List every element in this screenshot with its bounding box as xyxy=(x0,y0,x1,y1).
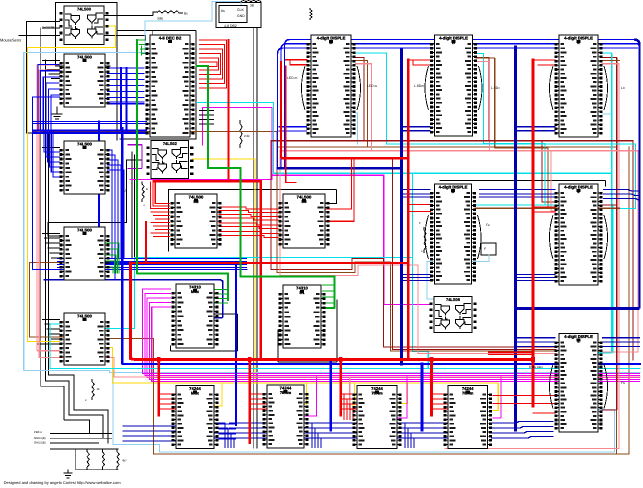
ground U2 bar1 xyxy=(52,113,62,115)
wire to U3 pin xyxy=(52,171,60,173)
wire magenta 107 xyxy=(202,108,272,180)
blue D5 right xyxy=(603,190,640,200)
svg-text:74LS00: 74LS00 xyxy=(77,228,92,233)
wire cyan D4-D6 xyxy=(475,205,613,353)
net rail PB0 xyxy=(51,432,112,434)
green vert left 2 xyxy=(141,46,143,55)
svg-text:Designed and drawing by angelo: Designed and drawing by angelo Cortesi h… xyxy=(4,480,122,485)
red into D6 b xyxy=(493,403,556,405)
wire to U4 pin xyxy=(44,237,59,239)
resistor R1 xyxy=(87,449,89,470)
green vert left 1 xyxy=(137,40,228,300)
ground bar2 xyxy=(66,475,71,477)
wire clk A xyxy=(252,28,254,449)
frame bottom U5 xyxy=(120,138,196,140)
red vert 249 low xyxy=(248,360,250,443)
red into D2 b xyxy=(413,60,431,65)
wire maroon 349 xyxy=(392,158,555,349)
blue fan U2 left xyxy=(38,65,59,131)
buffer B1 xyxy=(171,386,218,449)
frame bottom U1 xyxy=(56,65,111,67)
ground bar1 xyxy=(64,472,72,474)
red into D6 a xyxy=(493,395,556,397)
wire cyan rail right xyxy=(387,144,636,209)
wire red U8 up b xyxy=(325,159,354,221)
wire brown rail xyxy=(29,262,103,337)
wire red U8 up a xyxy=(325,159,352,209)
wire to U10 pin xyxy=(51,338,59,340)
display DS6 xyxy=(550,334,608,433)
wire sky stub D3 xyxy=(602,113,612,115)
blue bus band 2 xyxy=(57,259,247,268)
red into D3 a xyxy=(533,59,556,61)
wire to U3 pin xyxy=(50,166,60,168)
oscillator X1 xyxy=(219,6,247,29)
wire yellow B3 branch xyxy=(352,383,354,405)
red into D4 b xyxy=(408,211,430,213)
blue vert 4 xyxy=(235,263,237,425)
wire cyan bus bottom xyxy=(50,324,640,369)
magenta bus bundle xyxy=(143,289,641,381)
blue bus band 2 thick xyxy=(100,262,236,264)
red into D1 b xyxy=(290,64,307,66)
blue rail left top xyxy=(33,96,60,98)
IC U7 xyxy=(170,194,221,248)
IC U4 xyxy=(59,227,109,280)
resistor R2 xyxy=(102,449,104,470)
frame display row 2 xyxy=(440,181,606,186)
svg-text:GND2(B): GND2(B) xyxy=(34,441,46,445)
wire brown long bottom xyxy=(104,147,630,454)
wire cyan D3 rail xyxy=(598,53,612,353)
wire violet bracket U6 xyxy=(128,145,142,169)
svg-text:Fe: Fe xyxy=(486,223,490,227)
green fan C2 right xyxy=(322,285,335,303)
red fan B2lh xyxy=(250,394,267,409)
red B4-D6 xyxy=(488,352,533,354)
wire yellow 2 xyxy=(193,159,255,383)
wire to U3 pin xyxy=(44,151,59,153)
blue U4 to U9 xyxy=(105,243,115,280)
blue into D3 low xyxy=(516,127,556,131)
frame around U7 U8 row xyxy=(169,190,337,252)
red vert 260 xyxy=(260,181,262,360)
wire maroon D2-D5 xyxy=(476,58,556,203)
svg-text:8 Mu plex: 8 Mu plex xyxy=(529,365,543,369)
svg-text:74LS00: 74LS00 xyxy=(77,314,92,319)
blue bus band 1 thick xyxy=(33,131,147,134)
wire magenta B2 branch xyxy=(304,375,317,416)
red fan B1h xyxy=(159,394,176,409)
display DS2 xyxy=(425,35,482,136)
oscillator X3 xyxy=(481,243,496,255)
wire to U10 pin xyxy=(49,333,59,335)
green fan U9 right xyxy=(214,290,228,304)
red fan B4h xyxy=(432,394,449,409)
wire to U3 pin xyxy=(43,147,60,149)
wire pink rail right xyxy=(372,151,639,352)
ground stem xyxy=(67,470,69,473)
net rail GND1 xyxy=(51,437,112,439)
net rail GND2 xyxy=(51,442,99,444)
display DS3 xyxy=(550,35,608,137)
wire to U2 pin xyxy=(51,78,59,80)
svg-text:F: F xyxy=(484,247,486,251)
wire to U2 pin xyxy=(49,73,59,75)
wire sky stub D1 xyxy=(356,113,358,144)
crystal X2 xyxy=(310,8,312,20)
wire yellow bottom xyxy=(104,348,499,411)
svg-text:8s: 8s xyxy=(221,9,225,13)
wire cyan D1 drop xyxy=(356,53,387,144)
wire magenta B4 branch xyxy=(493,375,501,418)
wire pink B3 branch xyxy=(350,377,353,409)
buffer B2 xyxy=(262,385,308,448)
red bus bottom xyxy=(131,263,534,360)
blue vert a xyxy=(120,68,122,131)
wire sky bottom frame xyxy=(113,370,615,452)
wire to U4 pin xyxy=(48,247,60,249)
red into D5 b xyxy=(533,211,556,213)
wire U6 to U4 xyxy=(48,160,141,236)
blue B2-B3 h xyxy=(312,423,357,438)
black rail 2 xyxy=(46,60,104,438)
blue into D4 xyxy=(402,190,431,198)
svg-text:LED m: LED m xyxy=(287,76,298,80)
blue vert 1 xyxy=(98,122,100,261)
wire sky osc2 xyxy=(427,255,489,299)
blue vert b xyxy=(125,68,127,133)
blue vert main + bottom bus xyxy=(122,128,640,364)
wire black mid a xyxy=(131,152,133,259)
blue into D4 low xyxy=(402,275,431,281)
red into D4 a xyxy=(408,204,430,206)
junction xyxy=(339,357,343,362)
svg-text:4k7: 4k7 xyxy=(122,459,127,463)
wire brown D2-D5 xyxy=(476,58,556,208)
wire black mid b xyxy=(133,155,135,259)
red into D2 a xyxy=(408,59,430,61)
blue into B1 left xyxy=(122,426,176,441)
wire brown D1 loop xyxy=(277,147,556,351)
frame around U9 xyxy=(171,314,238,351)
red fan B2 xyxy=(341,394,353,420)
wire yellow B1 branch xyxy=(214,383,223,406)
red bundle U5 right xyxy=(199,40,227,88)
resistor R6 xyxy=(240,120,242,148)
blue into D5 low xyxy=(516,275,556,281)
wire pink rail 1 xyxy=(37,65,60,351)
blue display bus row1 xyxy=(278,40,639,169)
red vert b0 xyxy=(157,360,160,415)
wire maroon rail right xyxy=(364,141,633,360)
red into D1 a xyxy=(286,59,308,61)
red into D6 c xyxy=(533,412,556,414)
quad NAND U1 xyxy=(59,6,108,45)
IC U11 xyxy=(278,285,325,348)
frame around U11 xyxy=(278,300,337,362)
IC U2 xyxy=(59,54,109,107)
wire yellow B2 branch xyxy=(305,383,307,404)
svg-text:2.2k: 2.2k xyxy=(244,134,250,138)
scallops above X1 xyxy=(241,1,261,3)
wire cyan D2-D5 xyxy=(476,54,556,205)
wire magenta mid xyxy=(384,175,430,304)
resistor R5 10k xyxy=(92,379,94,400)
blue bundle U2-U5 xyxy=(107,68,145,104)
wire cyan 1 xyxy=(197,103,274,174)
buffer B4 xyxy=(443,386,492,449)
svg-text:Fs: Fs xyxy=(621,381,625,385)
quad AND U12 xyxy=(429,297,476,333)
wire brown right rail xyxy=(362,147,617,454)
wire maroon D5-D6 xyxy=(602,205,617,410)
wire to U4 pin xyxy=(50,252,60,254)
svg-text:L8: L8 xyxy=(124,189,128,193)
blue fan B1 xyxy=(219,424,236,439)
blue wire to U9 xyxy=(44,280,223,318)
blue bus band 1 thin xyxy=(33,122,147,124)
svg-text:3(B): 3(B) xyxy=(157,17,163,21)
ground U2 bar3 xyxy=(56,118,59,120)
net rail 4 xyxy=(51,448,119,450)
display DS5 xyxy=(550,184,608,285)
wire to U2 pin xyxy=(47,69,60,71)
wire to U10 pin xyxy=(43,319,60,321)
red into D5 a xyxy=(533,206,556,208)
black rail 4 xyxy=(37,120,59,344)
wire pink D3 rail xyxy=(445,64,619,449)
wire to U2 pin xyxy=(45,64,60,66)
svg-text:L.8D=: L.8D= xyxy=(491,86,500,90)
resistor R3 xyxy=(117,449,119,470)
wire brown D1 drop xyxy=(277,61,368,148)
display DS4 xyxy=(425,184,481,284)
wire brown D4 stub xyxy=(475,207,620,209)
blue B4-D6 h xyxy=(491,422,554,439)
red vert 146 xyxy=(145,222,147,263)
red fan B2h xyxy=(344,394,357,409)
blue B3-B4 xyxy=(397,423,415,448)
net left leg xyxy=(75,449,77,470)
red vert D1b xyxy=(286,66,296,183)
blue vert b3 xyxy=(421,364,424,430)
wire pink D2-D5 xyxy=(476,62,556,212)
junction xyxy=(531,357,535,362)
blue B1-B2 xyxy=(214,423,235,448)
blue fan U3 right xyxy=(107,150,124,258)
wire brown D3 stub xyxy=(602,60,620,62)
blue right edge rail xyxy=(634,40,640,309)
blue D4 right xyxy=(479,190,516,198)
quad NOR U6 xyxy=(146,141,193,179)
red bundle U7-U8 xyxy=(219,207,279,237)
svg-text:74LS00: 74LS00 xyxy=(77,55,92,60)
svg-text:4-8 DB2: 4-8 DB2 xyxy=(224,24,237,28)
blue into D6 xyxy=(516,338,556,347)
svg-text:4-8 DEC B2: 4-8 DEC B2 xyxy=(159,36,182,41)
svg-text:F: F xyxy=(419,221,421,225)
net rail bottom xyxy=(76,469,118,471)
wire to U4 pin xyxy=(46,242,59,244)
wire maroon D3 rail xyxy=(598,58,617,353)
wire cyan vert mid xyxy=(411,173,413,257)
junction xyxy=(430,357,434,362)
wire cyan mid loop xyxy=(104,258,429,369)
wire to U4 pin xyxy=(52,257,60,259)
green wire long xyxy=(197,66,335,308)
blue vert center xyxy=(400,50,403,364)
green fan U4 right xyxy=(105,243,119,273)
blue thick horiz 168 xyxy=(278,167,402,169)
svg-text:74LS00: 74LS00 xyxy=(77,142,92,147)
wire sky clock loop xyxy=(24,1,640,372)
blue vert right xyxy=(514,47,517,430)
blue fan U3 left xyxy=(44,131,59,177)
IC U8 xyxy=(278,194,329,248)
svg-text:PB0.4: PB0.4 xyxy=(34,430,42,434)
red vert b1 xyxy=(339,360,342,415)
svg-text:CLK: CLK xyxy=(237,8,244,12)
wire black left xyxy=(27,21,43,133)
red vert 226 xyxy=(228,40,230,181)
svg-text:1k: 1k xyxy=(97,387,101,391)
wire input 3 xyxy=(43,27,60,29)
wire pink D1 loop xyxy=(280,64,556,354)
resistor R7 xyxy=(424,227,426,253)
wire brown bus xyxy=(33,130,277,132)
svg-text:3B: 3B xyxy=(250,4,254,8)
wire to U4 pin xyxy=(43,233,60,235)
wire input 2 xyxy=(27,20,60,22)
black rail 3 xyxy=(49,95,109,443)
wire frame to U5 pin xyxy=(152,30,154,36)
display DS1 xyxy=(302,35,361,137)
svg-text:MouseSens: MouseSens xyxy=(0,38,21,43)
blue into D2 low xyxy=(402,127,431,131)
red into D3 b xyxy=(538,64,556,66)
blue into D1 low xyxy=(279,127,308,131)
resistor R8 xyxy=(142,182,144,203)
blue B1-B2 h xyxy=(229,423,267,438)
blue into D5 xyxy=(516,190,556,198)
wire to U10 pin xyxy=(47,328,60,330)
wire clk B xyxy=(256,28,258,449)
IC U3 xyxy=(59,141,109,194)
svg-text:74LS08: 74LS08 xyxy=(446,297,461,302)
frame around gate IC U1 xyxy=(56,3,118,141)
red vert D1 + horiz 158 xyxy=(281,62,408,158)
wire to U3 pin xyxy=(46,156,59,158)
junction xyxy=(248,357,252,362)
IC U9 mux xyxy=(171,284,218,348)
blue thick horiz 308 xyxy=(516,307,639,310)
wire U1 to U5 b xyxy=(105,36,146,40)
wire cyan to right xyxy=(274,172,612,174)
black rail 1 xyxy=(41,28,90,433)
red vert right xyxy=(532,60,535,406)
wire U1 to FsOUT xyxy=(105,12,158,15)
wire to U2 pin xyxy=(43,60,60,62)
svg-text:GND1(B): GND1(B) xyxy=(34,436,46,440)
red vert center xyxy=(407,60,410,358)
red vert b2 xyxy=(430,360,433,415)
wire magenta horiz xyxy=(130,179,272,181)
red horiz 181 xyxy=(154,180,261,182)
wire pink rail 2 xyxy=(39,70,640,377)
svg-text:B: B xyxy=(146,187,148,191)
wire magenta B3 branch xyxy=(397,375,408,418)
oscillator X1 frame xyxy=(216,3,261,28)
blue vert b2 xyxy=(329,360,332,430)
red fan U7 left xyxy=(151,181,170,236)
svg-text:2xOUTB: 2xOUTB xyxy=(42,26,54,30)
green fan U5 left xyxy=(137,40,146,54)
wire MouseSens input xyxy=(19,34,59,36)
red into D1 b riser xyxy=(289,60,291,65)
svg-text:LED w: LED w xyxy=(367,84,378,88)
blue out of D6 right xyxy=(602,338,640,347)
svg-text:Lw: Lw xyxy=(598,227,603,231)
wire to U3 pin xyxy=(48,161,60,163)
ground U2 stem xyxy=(56,107,58,114)
svg-text:L.8Dm: L.8Dm xyxy=(414,84,424,88)
buffer B3 xyxy=(352,386,401,449)
wire yellow B3 branch right xyxy=(397,383,408,404)
frame around CPU U5 xyxy=(117,30,196,139)
svg-text:Lo: Lo xyxy=(621,86,625,90)
wire to U10 pin xyxy=(45,323,60,325)
ground bar3 xyxy=(67,477,69,479)
wire yellow rail xyxy=(27,26,115,341)
svg-text:GND: GND xyxy=(237,14,245,18)
IC U5 decoder xyxy=(145,35,194,137)
junction xyxy=(157,357,161,362)
svg-text:Bs: Bs xyxy=(184,12,188,16)
IC U10 xyxy=(59,313,109,365)
blue B2-B3 xyxy=(304,423,322,448)
FsOUT wavy symbol xyxy=(157,11,183,13)
black stubs U5 xyxy=(199,111,214,125)
wire maroon D1 loop xyxy=(271,58,556,348)
blue rail left xyxy=(33,97,248,270)
svg-text:74LS00: 74LS00 xyxy=(77,7,92,12)
ground U2 bar2 xyxy=(54,116,60,118)
red horiz 262 xyxy=(131,262,409,264)
blue B3-B4 h xyxy=(405,423,448,438)
svg-text:74LS02: 74LS02 xyxy=(163,141,178,146)
wire magenta horiz 2 xyxy=(272,174,384,176)
